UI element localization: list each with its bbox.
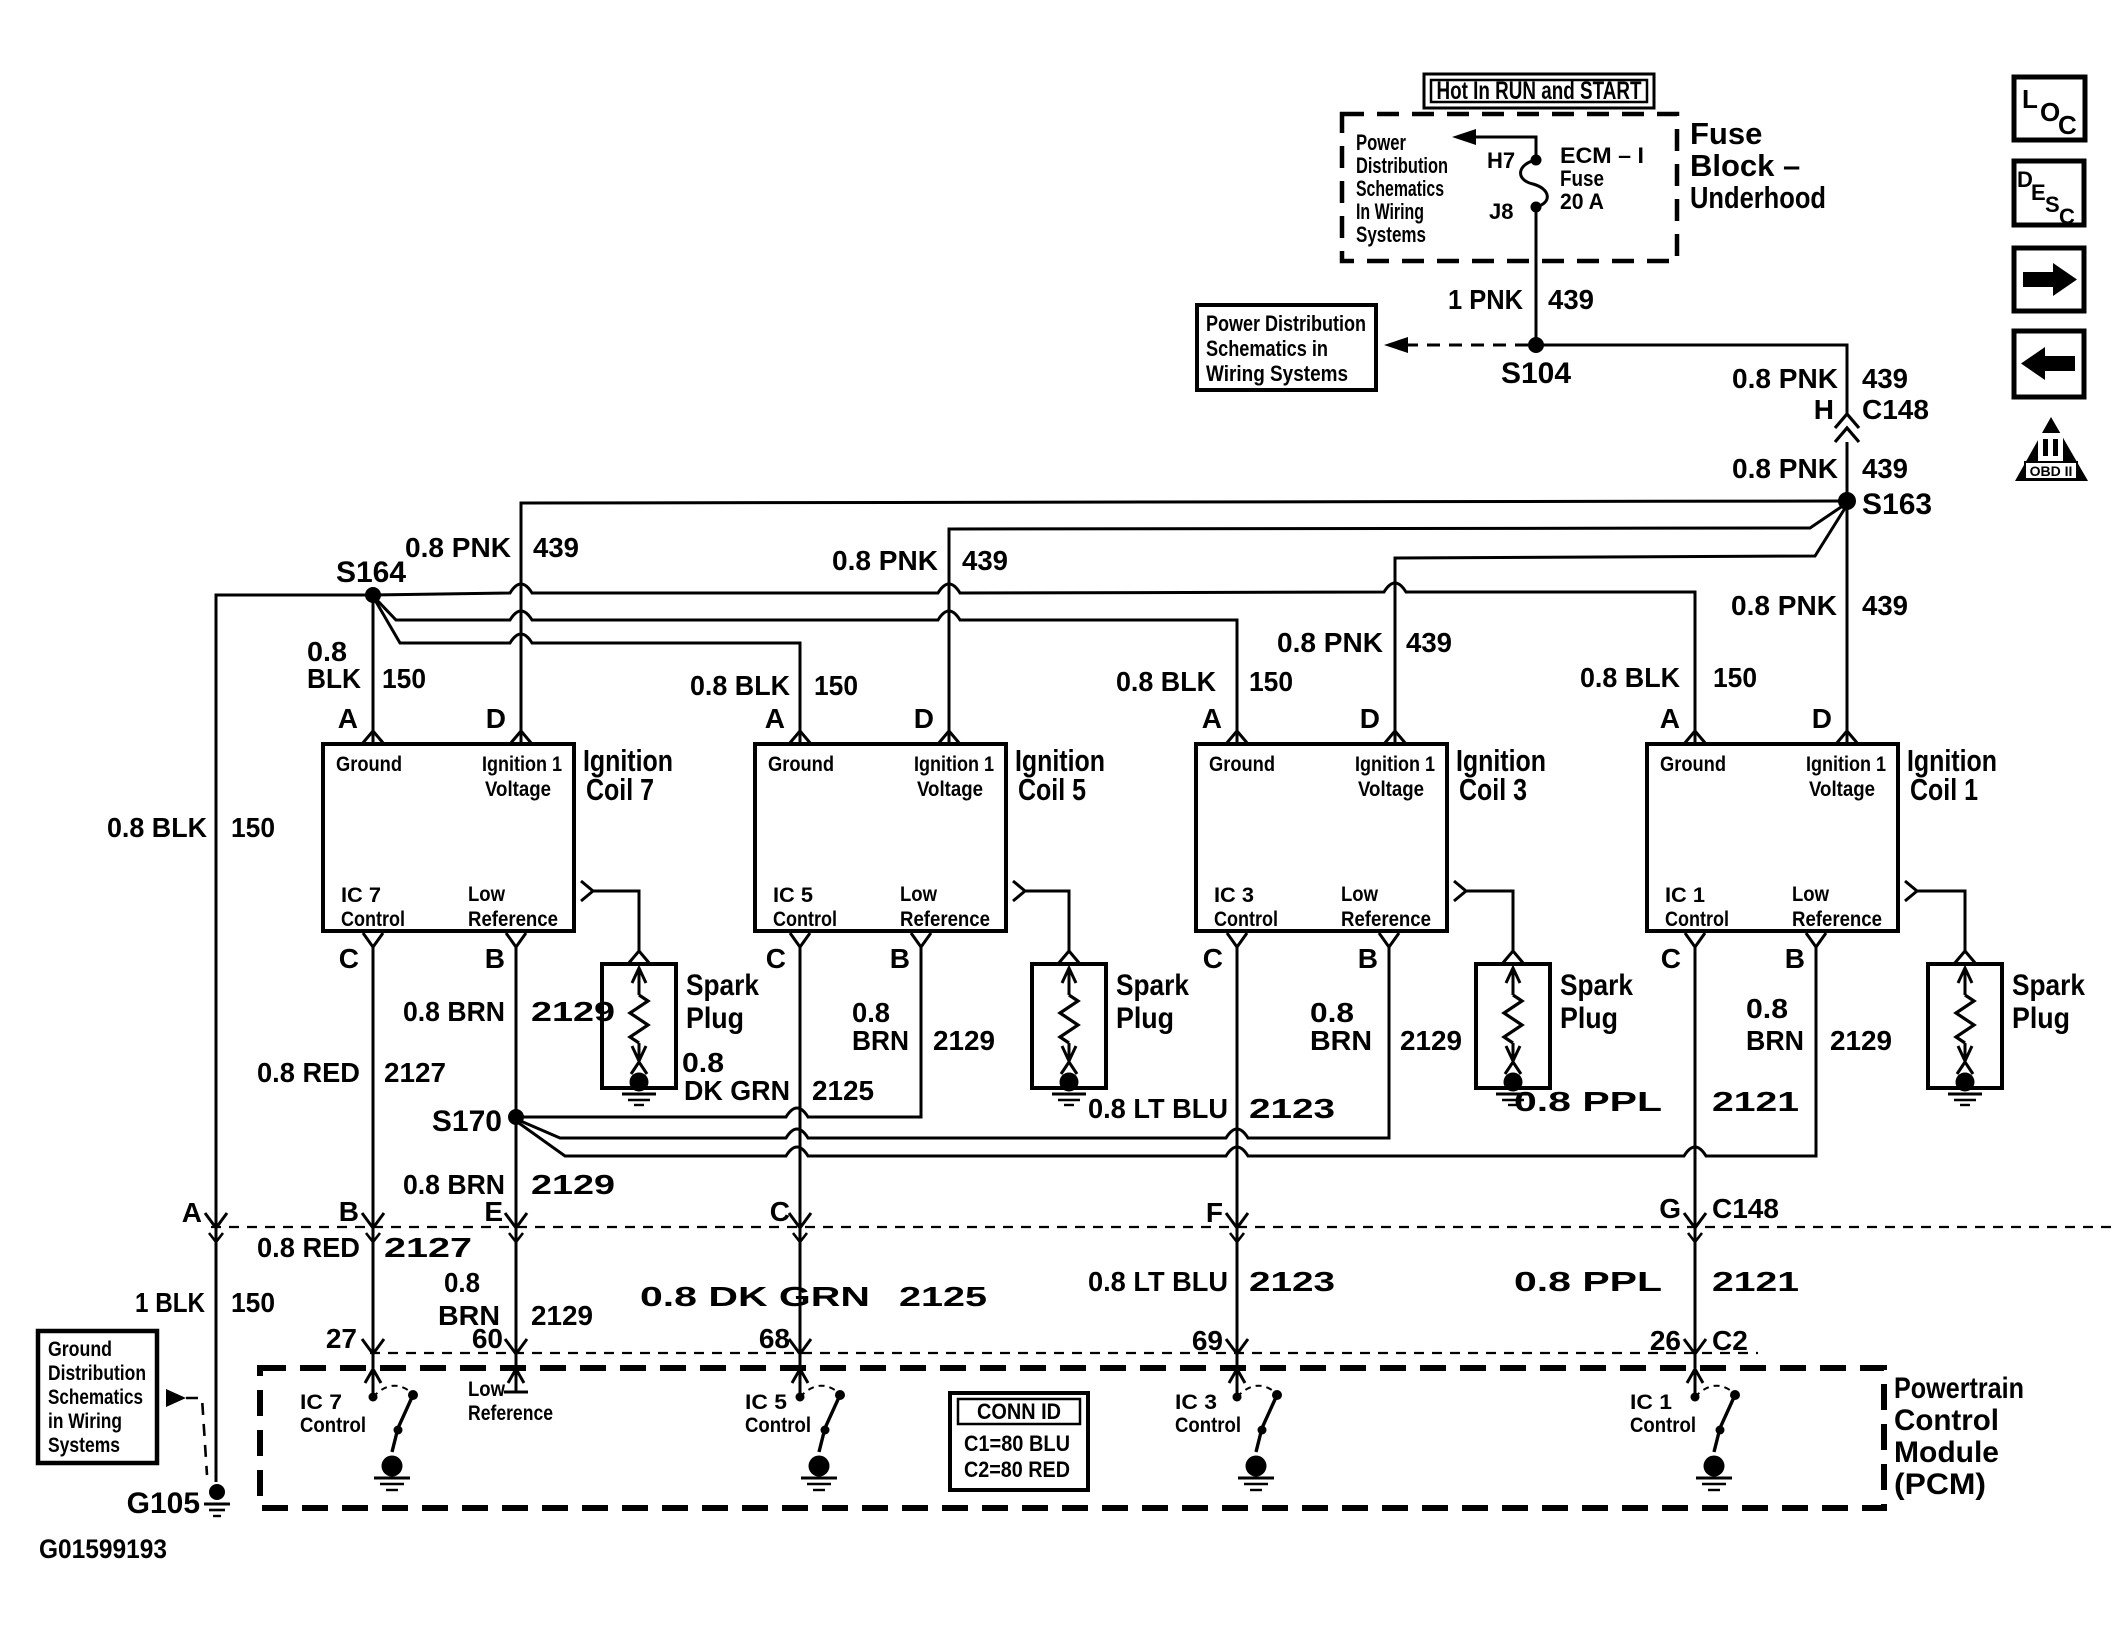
coil 3 low reference output chevron [1454, 881, 1466, 901]
coil 3 pin B chevron [1379, 933, 1399, 947]
svg-text:27: 27 [326, 1323, 357, 1354]
svg-text:0.8 PNK: 0.8 PNK [1732, 363, 1838, 394]
spark plug 3 internal electrode and gap [1512, 968, 1515, 995]
svg-text:Control: Control [1630, 1414, 1696, 1437]
dashed reference arrow to ground distribution box [166, 1389, 186, 1407]
svg-text:0.8 PNK: 0.8 PNK [1732, 453, 1838, 484]
svg-text:J8: J8 [1489, 199, 1513, 224]
svg-text:150: 150 [231, 812, 275, 843]
coil 1 pin C chevron [1685, 933, 1705, 947]
svg-text:A: A [338, 703, 358, 734]
icon box LOC [2014, 77, 2085, 140]
wire coil 5 pin C IC 5 control down to PCM pin 68 [799, 947, 802, 1368]
svg-text:2127: 2127 [384, 1057, 446, 1088]
svg-text:Low: Low [1792, 883, 1830, 906]
svg-text:2125: 2125 [899, 1281, 987, 1312]
svg-text:In Wiring: In Wiring [1356, 199, 1424, 224]
svg-text:Plug: Plug [2012, 1002, 2070, 1035]
Powertrain Control Module PCM dashed box [260, 1368, 1884, 1508]
svg-text:68: 68 [759, 1323, 790, 1354]
svg-text:Wiring Systems: Wiring Systems [1206, 361, 1348, 386]
svg-text:0.8 BLK: 0.8 BLK [107, 812, 207, 843]
svg-text:G: G [1659, 1193, 1681, 1224]
splice S104 [1528, 337, 1544, 353]
svg-text:C2: C2 [1712, 1325, 1748, 1356]
PCM IC 1 ground [1704, 1456, 1725, 1477]
svg-text:Powertrain: Powertrain [1894, 1372, 2024, 1405]
wire S104 to right and down to C148 H [1536, 345, 1847, 414]
connector C148 pin H symbol [1835, 414, 1859, 428]
svg-text:Control: Control [1665, 908, 1729, 931]
svg-text:150: 150 [1713, 662, 1757, 693]
svg-text:A: A [1660, 703, 1680, 734]
svg-text:BRN: BRN [852, 1025, 909, 1056]
svg-text:CONN ID: CONN ID [977, 1399, 1061, 1424]
wire S163 down to ignition coil 1 pin D [1846, 501, 1849, 744]
spark plug 1 box [1928, 964, 2002, 1088]
reference box Ground Distribution Schematics in Wiring Systems [38, 1331, 157, 1463]
svg-text:IC 5: IC 5 [773, 884, 813, 907]
coil 5 pin B chevron [911, 933, 931, 947]
svg-text:Ignition 1: Ignition 1 [482, 753, 562, 776]
svg-text:C: C [1203, 943, 1223, 974]
PCM connector pin crossing chevron [1226, 1339, 1248, 1354]
PCM IC 5 switch [796, 1393, 805, 1402]
svg-text:Voltage: Voltage [917, 778, 983, 801]
svg-text:C1=80 BLU: C1=80 BLU [964, 1431, 1070, 1456]
svg-text:Low: Low [1341, 883, 1379, 906]
svg-text:0.8 PNK: 0.8 PNK [832, 545, 938, 576]
svg-text:Reference: Reference [900, 908, 990, 931]
PCM IC 3 switch [1233, 1393, 1242, 1402]
svg-text:B: B [339, 1196, 359, 1227]
svg-text:BRN: BRN [1746, 1025, 1804, 1056]
PCM connector pin crossing chevron [505, 1339, 527, 1354]
svg-text:Spark: Spark [686, 969, 759, 1002]
ignition coil 7 box [323, 744, 574, 931]
wire coil 1 pin C IC 1 control down to PCM pin 26 [1694, 947, 1697, 1368]
wire S164 left and down to ground pin A [216, 595, 373, 1482]
svg-text:D: D [914, 703, 934, 734]
dashed reference wire from S104 to power distribution box [1404, 344, 1528, 347]
svg-text:0.8 BLK: 0.8 BLK [690, 670, 790, 701]
svg-text:0.8 PNK: 0.8 PNK [1731, 590, 1837, 621]
connector C148 pin B crossing [362, 1213, 384, 1228]
svg-text:0.8: 0.8 [1746, 993, 1788, 1024]
svg-text:Schematics: Schematics [1356, 176, 1444, 201]
svg-text:ECM – I: ECM – I [1560, 143, 1644, 168]
svg-text:439: 439 [962, 545, 1008, 576]
coil 7 pin C chevron [363, 933, 383, 947]
spark plug 1 ground [1956, 1073, 1975, 1092]
icon box arrow left [2014, 331, 2084, 397]
spark plug 7 connector chevron [628, 951, 650, 964]
svg-text:Block –: Block – [1690, 148, 1800, 183]
svg-text:0.8: 0.8 [444, 1267, 480, 1298]
wire S170 to coil 5 pin B [516, 947, 921, 1117]
fuse F1 ECM-I 20A element [1531, 155, 1542, 166]
svg-text:S170: S170 [432, 1105, 502, 1138]
svg-text:2129: 2129 [531, 1300, 593, 1331]
coil 3 pin D chevron [1384, 731, 1406, 744]
svg-text:Plug: Plug [1116, 1002, 1174, 1035]
wire S164 to coil 3 pin A [375, 598, 1237, 744]
PCM connector pin crossing chevron [789, 1339, 811, 1354]
svg-text:Low: Low [900, 883, 938, 906]
header box Hot In RUN and START [1424, 74, 1654, 108]
svg-text:Control: Control [1214, 908, 1278, 931]
svg-text:Coil 1: Coil 1 [1910, 772, 1978, 807]
svg-text:IC 7: IC 7 [341, 884, 381, 907]
svg-text:Low: Low [468, 883, 506, 906]
svg-text:0.8 RED: 0.8 RED [257, 1057, 360, 1088]
svg-text:Hot In RUN and START: Hot In RUN and START [1437, 77, 1642, 105]
svg-text:DK GRN: DK GRN [684, 1075, 790, 1106]
svg-text:C148: C148 [1862, 394, 1929, 425]
svg-text:0.8 RED: 0.8 RED [257, 1232, 360, 1263]
svg-text:2121: 2121 [1712, 1086, 1799, 1117]
svg-text:Control: Control [341, 908, 405, 931]
in-line connector C148 dashed line [211, 1226, 2115, 1228]
svg-text:0.8 LT BLU: 0.8 LT BLU [1088, 1266, 1228, 1297]
svg-text:D: D [1360, 703, 1380, 734]
svg-text:Power: Power [1356, 130, 1406, 155]
svg-text:2129: 2129 [1400, 1025, 1462, 1056]
spark plug 7 ground [630, 1073, 649, 1092]
svg-text:(PCM): (PCM) [1894, 1468, 1986, 1501]
svg-text:0.8 BRN: 0.8 BRN [403, 996, 505, 1027]
svg-text:Control: Control [300, 1414, 366, 1437]
svg-text:H7: H7 [1487, 148, 1515, 173]
svg-text:Module: Module [1894, 1436, 1999, 1469]
svg-text:B: B [485, 943, 505, 974]
spark plug 3 ground [1504, 1073, 1523, 1092]
svg-text:0.8 PPL: 0.8 PPL [1514, 1086, 1662, 1117]
spark plug 3 box [1476, 964, 1550, 1088]
svg-text:H: H [1814, 394, 1834, 425]
wire coil 5 low reference to spark plug [1025, 891, 1069, 951]
wire coil 7 low reference to spark plug [593, 891, 639, 951]
svg-text:IC 7: IC 7 [300, 1391, 342, 1414]
svg-text:0.8 PNK: 0.8 PNK [405, 532, 511, 563]
PCM IC 7 driver pin arrow [372, 1370, 375, 1394]
svg-text:Reference: Reference [1792, 908, 1882, 931]
svg-text:0.8 LT BLU: 0.8 LT BLU [1088, 1093, 1228, 1124]
svg-text:A: A [182, 1197, 202, 1228]
wire S170 to coil 3 pin B [516, 947, 1389, 1138]
svg-text:B: B [1785, 943, 1805, 974]
svg-text:Schematics: Schematics [48, 1386, 143, 1409]
coil 1 low reference output chevron [1905, 881, 1917, 901]
svg-text:G01599193: G01599193 [39, 1534, 167, 1564]
svg-text:60: 60 [472, 1323, 503, 1354]
svg-text:Ground: Ground [48, 1338, 112, 1361]
coil 7 pin D chevron [510, 731, 532, 744]
svg-text:2129: 2129 [1830, 1025, 1892, 1056]
svg-text:E: E [484, 1196, 503, 1227]
svg-text:0.8 PNK: 0.8 PNK [1277, 627, 1383, 658]
svg-text:2127: 2127 [384, 1232, 472, 1263]
connector C148 pin F crossing [1226, 1213, 1248, 1228]
wire coil 7 pin B low reference down to PCM pin 60 [515, 947, 518, 1368]
coil 7 low reference output chevron [581, 881, 593, 901]
svg-text:IC 3: IC 3 [1175, 1391, 1217, 1414]
svg-text:2125: 2125 [812, 1075, 874, 1106]
svg-text:Ignition 1: Ignition 1 [1806, 753, 1886, 776]
svg-text:Ground: Ground [1209, 753, 1275, 776]
svg-text:Reference: Reference [468, 1402, 553, 1425]
svg-text:439: 439 [1862, 453, 1908, 484]
spark plug 7 box [602, 964, 676, 1088]
svg-text:0.8 BLK: 0.8 BLK [1116, 666, 1216, 697]
wire coil 3 low reference to spark plug [1466, 891, 1513, 951]
svg-text:1 PNK: 1 PNK [1448, 284, 1523, 315]
svg-text:Ground: Ground [336, 753, 402, 776]
svg-text:E: E [2031, 180, 2046, 205]
coil 1 pin D chevron [1836, 731, 1858, 744]
svg-text:S163: S163 [1862, 488, 1932, 521]
ground G105 [209, 1484, 225, 1500]
svg-text:IC 1: IC 1 [1630, 1391, 1672, 1414]
svg-text:Reference: Reference [1341, 908, 1431, 931]
svg-text:Voltage: Voltage [1358, 778, 1424, 801]
icon box arrow right [2014, 248, 2084, 311]
svg-text:Plug: Plug [686, 1002, 744, 1035]
svg-text:Reference: Reference [468, 908, 558, 931]
spark plug 1 internal electrode and gap [1964, 968, 1967, 995]
svg-text:S: S [2045, 192, 2060, 217]
svg-text:439: 439 [1862, 590, 1908, 621]
svg-text:C2=80 RED: C2=80 RED [964, 1457, 1070, 1482]
svg-text:Coil 3: Coil 3 [1459, 772, 1527, 807]
svg-text:26: 26 [1650, 1325, 1681, 1356]
wire S164 down to coil 7 pin A [372, 595, 375, 744]
svg-text:S164: S164 [336, 556, 406, 589]
coil 5 pin C chevron [790, 933, 810, 947]
svg-text:S104: S104 [1501, 357, 1571, 390]
svg-text:B: B [1358, 943, 1378, 974]
fuse block dashed box Fuse Block - Underhood [1342, 114, 1677, 261]
svg-text:C: C [1661, 943, 1681, 974]
spark plug 7 internal electrode and gap [638, 968, 641, 995]
ignition coil 1 box [1647, 744, 1898, 931]
ignition coil 3 box [1196, 744, 1447, 931]
wire coil 7 pin C IC 7 control down to PCM pin 27 [372, 947, 375, 1368]
svg-text:0.8: 0.8 [682, 1047, 724, 1078]
svg-text:Control: Control [1894, 1404, 1999, 1437]
svg-text:F: F [1206, 1197, 1223, 1228]
spark plug 5 ground [1060, 1073, 1079, 1092]
svg-text:C: C [339, 943, 359, 974]
svg-text:Ground: Ground [1660, 753, 1726, 776]
svg-text:IC 5: IC 5 [745, 1391, 787, 1414]
wire S164 to coil 1 pin A [373, 583, 1695, 744]
svg-text:Distribution: Distribution [48, 1362, 146, 1385]
wire S164 to coil 5 pin A [375, 600, 800, 744]
PCM IC 7 ground [382, 1456, 403, 1477]
PCM connector pin crossing chevron [1684, 1339, 1706, 1354]
splice S163 [1838, 492, 1856, 510]
svg-text:OBD II: OBD II [2030, 463, 2073, 479]
wire S170 to coil 1 pin B [516, 947, 1816, 1156]
svg-text:1 BLK: 1 BLK [135, 1287, 205, 1318]
coil 1 pin B chevron [1806, 933, 1826, 947]
svg-text:150: 150 [382, 663, 426, 694]
svg-text:Control: Control [745, 1414, 811, 1437]
wire S163 to ignition coil 7 pin D [521, 501, 1847, 744]
PCM IC 3 driver pin arrow [1236, 1370, 1239, 1394]
svg-text:Control: Control [773, 908, 837, 931]
svg-text:IC 1: IC 1 [1665, 884, 1705, 907]
wire coil 1 low reference to spark plug [1917, 891, 1965, 951]
svg-text:Low: Low [468, 1378, 506, 1401]
svg-text:Coil 5: Coil 5 [1018, 772, 1086, 807]
svg-text:C: C [2058, 110, 2077, 140]
coil 5 pin D chevron [938, 731, 960, 744]
svg-text:Plug: Plug [1560, 1002, 1618, 1035]
wire S163 to ignition coil 3 pin D [1395, 505, 1847, 744]
svg-text:439: 439 [1548, 284, 1594, 315]
svg-text:150: 150 [1249, 666, 1293, 697]
svg-text:69: 69 [1192, 1325, 1223, 1356]
svg-text:2129: 2129 [531, 996, 615, 1027]
PCM IC 3 ground [1246, 1456, 1267, 1477]
svg-text:Systems: Systems [48, 1434, 120, 1457]
svg-text:Spark: Spark [1560, 969, 1633, 1002]
svg-text:Systems: Systems [1356, 222, 1426, 247]
svg-text:150: 150 [231, 1287, 275, 1318]
svg-text:150: 150 [814, 670, 858, 701]
svg-text:A: A [765, 703, 785, 734]
spark plug 5 box [1032, 964, 1106, 1088]
svg-text:C: C [2059, 204, 2075, 229]
connector C148 pin A crossing [205, 1213, 227, 1228]
ignition coil 5 box [755, 744, 1006, 931]
coil 5 pin A chevron [789, 731, 811, 744]
svg-text:2121: 2121 [1712, 1266, 1799, 1297]
PCM connector C2 dashed line [370, 1352, 1758, 1354]
svg-text:2123: 2123 [1249, 1266, 1335, 1297]
svg-text:L: L [2022, 84, 2038, 114]
connector C148 pin C crossing [789, 1213, 811, 1228]
coil 5 low reference output chevron [1013, 881, 1025, 901]
PCM IC 5 ground [809, 1456, 830, 1477]
wire arrow from fuse H7 to power distribution [1474, 137, 1536, 160]
spark plug 5 internal electrode and gap [1068, 968, 1071, 995]
svg-text:0.8 PPL: 0.8 PPL [1514, 1266, 1662, 1297]
svg-text:Ignition 1: Ignition 1 [1355, 753, 1435, 776]
svg-text:Spark: Spark [1116, 969, 1189, 1002]
svg-text:439: 439 [1406, 627, 1452, 658]
coil 3 pin A chevron [1226, 731, 1248, 744]
svg-text:0.8 BLK: 0.8 BLK [1580, 662, 1680, 693]
svg-text:Control: Control [1175, 1414, 1241, 1437]
svg-text:D: D [1812, 703, 1832, 734]
svg-text:Voltage: Voltage [1809, 778, 1875, 801]
svg-text:0.8: 0.8 [852, 997, 890, 1028]
svg-text:D: D [486, 703, 506, 734]
svg-text:2123: 2123 [1249, 1093, 1335, 1124]
svg-text:Voltage: Voltage [485, 778, 551, 801]
coil 7 pin B chevron [506, 933, 526, 947]
svg-text:BLK: BLK [307, 663, 361, 694]
svg-text:BRN: BRN [1310, 1025, 1372, 1056]
svg-text:Power Distribution: Power Distribution [1206, 311, 1366, 336]
wire S163 to ignition coil 5 pin D [949, 503, 1847, 744]
svg-text:G105: G105 [127, 1487, 200, 1520]
icon box DESC [2014, 161, 2084, 225]
reference box Power Distribution Schematics in Wiring Systems [1197, 305, 1376, 390]
svg-text:Coil 7: Coil 7 [586, 772, 654, 807]
svg-text:20 A: 20 A [1560, 189, 1604, 214]
svg-text:A: A [1202, 703, 1222, 734]
coil 3 pin C chevron [1227, 933, 1247, 947]
svg-text:B: B [890, 943, 910, 974]
PCM IC 7 switch [369, 1393, 378, 1402]
spark plug 1 connector chevron [1954, 951, 1976, 964]
coil 1 pin A chevron [1684, 731, 1706, 744]
spark plug 5 connector chevron [1058, 951, 1080, 964]
svg-text:Fuse: Fuse [1560, 166, 1604, 191]
svg-text:439: 439 [1862, 363, 1908, 394]
svg-text:IC 3: IC 3 [1214, 884, 1254, 907]
svg-text:C: C [770, 1196, 790, 1227]
PCM Low Reference pin arrow [515, 1370, 518, 1392]
svg-text:Fuse: Fuse [1690, 116, 1762, 151]
svg-text:Schematics in: Schematics in [1206, 336, 1328, 361]
svg-text:Ground: Ground [768, 753, 834, 776]
svg-text:2129: 2129 [531, 1169, 615, 1200]
svg-text:0.8 DK GRN: 0.8 DK GRN [640, 1281, 870, 1312]
PCM IC 5 driver pin arrow [799, 1370, 802, 1394]
spark plug 3 connector chevron [1502, 951, 1524, 964]
svg-text:C: C [766, 943, 786, 974]
svg-text:C148: C148 [1712, 1193, 1779, 1224]
PCM IC 1 switch [1691, 1393, 1700, 1402]
svg-text:0.8: 0.8 [1310, 997, 1354, 1028]
svg-text:439: 439 [533, 532, 579, 563]
svg-text:Underhood: Underhood [1690, 180, 1826, 215]
PCM IC 1 driver pin arrow [1694, 1370, 1697, 1394]
CONN ID table box [950, 1393, 1088, 1490]
PCM connector pin crossing chevron [362, 1339, 384, 1354]
svg-text:Spark: Spark [2012, 969, 2085, 1002]
connector C148 pin G crossing [1684, 1213, 1706, 1228]
coil 7 pin A chevron [362, 731, 384, 744]
svg-text:Ignition 1: Ignition 1 [914, 753, 994, 776]
wire fuse J8 down to S104 [1535, 207, 1538, 345]
svg-text:Distribution: Distribution [1356, 153, 1448, 178]
icon OBD II triangle [2015, 417, 2088, 481]
svg-text:2129: 2129 [933, 1025, 995, 1056]
svg-text:in Wiring: in Wiring [48, 1410, 122, 1433]
connector C148 pin E crossing [505, 1213, 527, 1228]
wire coil 3 pin C IC 3 control down to PCM pin 69 [1236, 947, 1239, 1368]
